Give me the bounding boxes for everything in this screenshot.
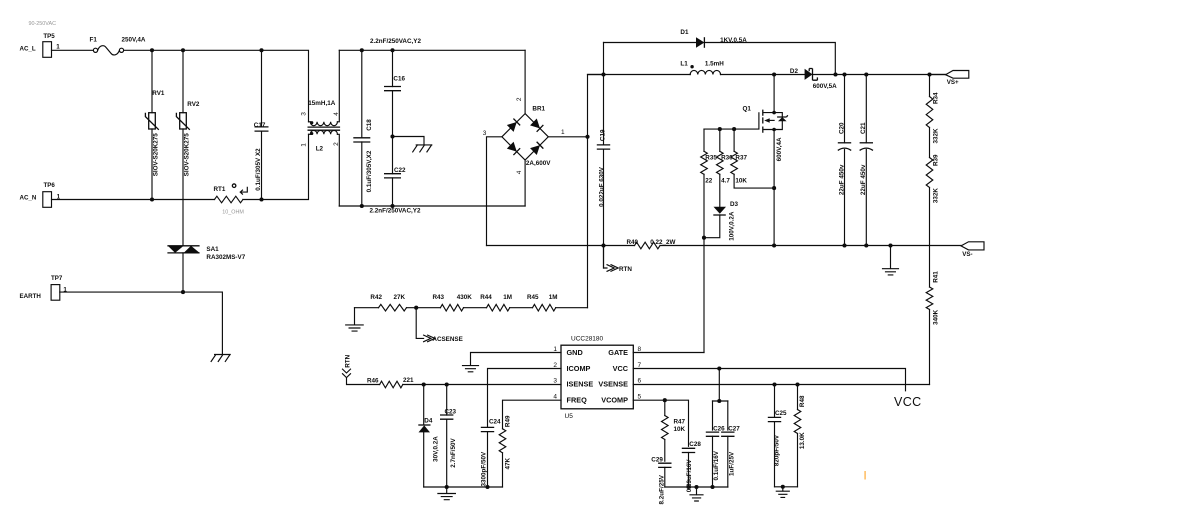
value 2.7nF/50V of C23 <box>450 438 457 468</box>
svg-text:100V,0.2A: 100V,0.2A <box>728 211 735 241</box>
wire AC_L rail to choke <box>124 50 309 122</box>
junction ground stub (VSENSE group) <box>781 485 785 489</box>
svg-text:332K: 332K <box>933 188 940 204</box>
svg-text:C18: C18 <box>366 119 373 131</box>
svg-text:C20: C20 <box>838 122 845 134</box>
net label RTN (ISENSE side) <box>343 354 380 384</box>
diode D4 (zener clamp) <box>418 385 433 488</box>
junction Q1 source on RTN rail <box>772 243 776 247</box>
svg-text:AC_N: AC_N <box>20 195 37 202</box>
label R41 <box>933 271 940 283</box>
svg-text:340K: 340K <box>933 309 940 325</box>
svg-text:VS+: VS+ <box>947 79 959 86</box>
value 430K of R43 <box>457 294 473 301</box>
resistor R41 <box>926 188 933 385</box>
svg-text:D1: D1 <box>680 29 689 36</box>
svg-text:4: 4 <box>333 112 340 116</box>
svg-text:1: 1 <box>301 143 308 147</box>
junction R48 top <box>795 382 799 386</box>
wire BR1 pin3 to RTN rail <box>487 137 502 246</box>
value 27K of R42 <box>394 294 406 301</box>
svg-text:R43: R43 <box>433 294 445 301</box>
stray highlight mark <box>864 471 866 480</box>
value 221 of R46 <box>403 377 414 384</box>
svg-text:R39: R39 <box>933 154 940 166</box>
value 30V,0.2A of D4 <box>433 436 440 462</box>
wire RTN rail <box>487 245 962 247</box>
wire ISENSE group ground rail <box>424 486 503 488</box>
resistor R40 <box>627 239 660 249</box>
junction R47 top <box>663 398 667 402</box>
svg-text:FREQ: FREQ <box>567 395 588 404</box>
capacitor C24 <box>481 419 501 488</box>
capacitor C23 <box>440 385 457 488</box>
svg-text:2.2nF/250VAC,Y2: 2.2nF/250VAC,Y2 <box>370 38 421 45</box>
svg-text:U5: U5 <box>565 413 574 420</box>
value 0.022uF 630V of C19 <box>598 166 605 207</box>
net label ACSENSE <box>416 308 463 343</box>
svg-text:RV1: RV1 <box>152 90 165 97</box>
svg-text:BR1: BR1 <box>532 105 545 112</box>
junction C26 bottom <box>710 485 714 489</box>
varistor RV2 <box>176 50 200 246</box>
svg-text:0.22_2W: 0.22_2W <box>650 239 675 246</box>
junction R34 top <box>927 72 931 76</box>
junction D1 on VS+ rail <box>833 72 837 76</box>
pin name ICOMP <box>567 364 591 373</box>
junction at RV2 top <box>181 48 185 52</box>
ground (RTN rail) <box>883 246 899 275</box>
value 340K of R41 <box>933 309 940 325</box>
svg-text:430K: 430K <box>457 294 473 301</box>
junction C21 bottom <box>864 243 868 247</box>
svg-text:2.7nF/50V: 2.7nF/50V <box>450 438 457 468</box>
resistor R44 <box>480 294 510 311</box>
wire BR1 pin2 to top rail <box>524 50 526 113</box>
value 1M of R44 <box>503 294 512 301</box>
svg-text:L2: L2 <box>316 146 324 153</box>
svg-text:TP7: TP7 <box>51 275 63 282</box>
pin 3 of BR1 <box>483 130 487 137</box>
value SIOV-S20K275 of RV2 <box>184 133 191 177</box>
value RA302MS-V7 of SA1 <box>206 254 245 261</box>
pin number 7 <box>638 362 642 369</box>
value 1M of R45 <box>549 294 558 301</box>
pin 2 of BR1 <box>516 97 523 101</box>
wire post-choke top rail <box>339 49 525 51</box>
junction C23 top <box>445 382 449 386</box>
resistor R34 <box>926 75 933 158</box>
junction C16/C22 midpoint <box>390 134 394 138</box>
junction C22 bottom <box>390 204 394 208</box>
junction R37 to source <box>772 186 776 190</box>
value 1uF/25V of C27 <box>729 451 736 476</box>
value 332K of R34 <box>933 128 940 144</box>
pin number 2 <box>553 362 557 369</box>
net label RTN (at R40) <box>604 246 633 273</box>
value 3300pF/50V of C24 <box>481 451 488 486</box>
label C19 <box>599 129 606 141</box>
junction BR1 pin1 <box>585 135 589 139</box>
capacitor C28 <box>682 441 702 487</box>
pin 1 of L2 <box>301 143 308 147</box>
svg-text:EARTH: EARTH <box>20 293 42 300</box>
pin 1 of TP6 <box>57 194 61 201</box>
pin name ISENSE <box>567 380 594 389</box>
junction C28 bottom <box>686 485 690 489</box>
value 22uF 450v of C21 <box>860 164 867 195</box>
ground (VSENSE group) <box>776 487 789 498</box>
port VS+ <box>930 71 969 87</box>
svg-text:UCC28180: UCC28180 <box>571 336 604 343</box>
svg-text:R44: R44 <box>480 294 492 301</box>
svg-text:R37: R37 <box>735 155 747 162</box>
value 47K of R49 <box>505 457 512 469</box>
svg-text:R40: R40 <box>627 239 639 246</box>
value 0.39uF/16V of C28 <box>686 459 693 493</box>
pin number 8 <box>638 346 642 353</box>
chassis ground (earth) <box>211 355 230 362</box>
svg-text:0.1uF/305V,X2: 0.1uF/305V,X2 <box>366 150 373 192</box>
wire VSENSE pin6 net <box>633 384 929 386</box>
svg-text:C24: C24 <box>489 419 501 426</box>
svg-text:C19: C19 <box>599 129 606 141</box>
svg-text:6: 6 <box>638 378 642 385</box>
pin 3 of L2 <box>301 112 308 116</box>
value 1KV,0.5A of D1 <box>720 37 747 44</box>
value 10K of R37 <box>735 178 747 185</box>
connector TP7 <box>20 275 63 300</box>
capacitor C22 <box>384 137 406 207</box>
wire VCOMP pin5 net <box>633 400 688 446</box>
svg-text:ICOMP: ICOMP <box>567 364 591 373</box>
resistor R43 <box>433 294 464 311</box>
svg-text:1M: 1M <box>549 294 558 301</box>
junction C24 bottom <box>485 485 489 489</box>
svg-text:R42: R42 <box>370 294 382 301</box>
wire VS+ rail <box>588 74 946 76</box>
port VS- <box>961 242 984 258</box>
wire VSENSE group ground rail <box>775 486 798 488</box>
choke L2 <box>308 50 341 206</box>
value 600V,5A of D2 <box>813 83 837 90</box>
junction C25 top <box>772 382 776 386</box>
capacitor C19 <box>597 43 610 269</box>
capacitor C29 <box>651 457 671 487</box>
wire EARTH net <box>60 292 223 354</box>
capacitor C26 <box>706 401 725 487</box>
wire ICOMP pin2 to C24 <box>488 369 562 428</box>
svg-text:250V,4A: 250V,4A <box>122 37 146 44</box>
diode D2 (schottky) <box>790 68 818 80</box>
svg-text:VCOMP: VCOMP <box>601 395 628 404</box>
svg-text:F1: F1 <box>90 37 98 44</box>
svg-text:1uF/25V: 1uF/25V <box>729 451 736 476</box>
svg-text:8.2uF/25V: 8.2uF/25V <box>659 474 666 504</box>
svg-text:D3: D3 <box>730 201 739 208</box>
pin number 6 <box>638 378 642 385</box>
junction RV1 bottom on AC_N <box>150 197 154 201</box>
resistor R48 <box>794 385 801 487</box>
svg-text:C25: C25 <box>775 410 787 417</box>
value 2.2nF/250VAC,Y2 of C22 <box>370 207 421 214</box>
transistor Q1 (MOSFET) <box>704 75 788 246</box>
svg-text:ACSENSE: ACSENSE <box>432 336 462 343</box>
svg-text:332K: 332K <box>933 128 940 144</box>
svg-text:AC_L: AC_L <box>20 45 36 52</box>
svg-text:13.0K: 13.0K <box>799 432 806 449</box>
svg-text:RT1: RT1 <box>214 186 226 193</box>
value 2.2nF/250VAC,Y2 of C16 <box>370 38 421 45</box>
resistor R45 <box>527 294 556 311</box>
value 22 of R35 <box>705 178 713 185</box>
value 0.1uF/305V X2 of C17 <box>255 148 262 191</box>
svg-text:30V,0.2A: 30V,0.2A <box>433 436 440 462</box>
value 332K of R39 <box>933 188 940 204</box>
value 15mH,1A of L2 <box>308 100 335 107</box>
junction gate drive node <box>702 236 706 240</box>
value 0.1uF/305V,X2 of C18 <box>366 150 373 192</box>
pin 1 of TP5 <box>56 44 60 51</box>
label R39 <box>933 154 940 166</box>
capacitor C27 <box>721 401 740 487</box>
value 100V,0.2A of D3 <box>728 211 735 241</box>
ground (pin1 GND) <box>463 366 479 372</box>
pin 1 of TP7 <box>63 286 67 293</box>
label C21 <box>860 122 867 134</box>
wire ISENSE line <box>403 384 561 386</box>
svg-text:RV2: RV2 <box>187 101 200 108</box>
svg-text:600V,4A: 600V,4A <box>776 137 783 161</box>
label R48 <box>799 395 806 407</box>
label C20 <box>838 122 845 134</box>
pin name GATE <box>608 348 628 357</box>
capacitor C16 <box>384 50 405 136</box>
label C18 <box>366 119 373 131</box>
wire VCC pin7 net <box>633 369 905 391</box>
junction VCC decoupling tap <box>717 366 721 370</box>
junction Q1 drain on VS+ rail <box>772 72 776 76</box>
svg-text:820pF/50V: 820pF/50V <box>774 434 781 466</box>
svg-text:R49: R49 <box>505 415 512 427</box>
wire divider chain <box>355 307 588 309</box>
pin name VCOMP <box>601 395 628 404</box>
junction C18 top <box>360 48 364 52</box>
varistor RV1 <box>145 50 165 199</box>
svg-text:R34: R34 <box>933 92 940 104</box>
svg-text:2: 2 <box>333 142 340 146</box>
value 10_OHM of RT1 <box>222 209 244 215</box>
svg-text:RA302MS-V7: RA302MS-V7 <box>206 254 245 261</box>
svg-text:C17: C17 <box>254 122 266 129</box>
capacitor C18 <box>353 50 370 206</box>
svg-text:47K: 47K <box>505 457 512 469</box>
pin name VCC <box>613 364 629 373</box>
svg-text:R45: R45 <box>527 294 539 301</box>
svg-text:3: 3 <box>301 112 308 116</box>
junction C19 bottom on RTN <box>601 243 605 247</box>
svg-text:L1: L1 <box>680 61 688 68</box>
svg-text:10K: 10K <box>674 426 686 433</box>
svg-text:10K: 10K <box>735 178 747 185</box>
svg-text:1KV,0.5A: 1KV,0.5A <box>720 37 747 44</box>
thermistor RT1 <box>214 184 248 203</box>
bridge rectifier BR1 <box>502 105 548 160</box>
pin 1 of BR1 <box>561 129 565 136</box>
junction R37 gate line <box>732 127 736 131</box>
svg-text:4: 4 <box>516 170 523 174</box>
value 820pF/50V of C25 <box>774 434 781 466</box>
svg-text:SIOV-S20K275: SIOV-S20K275 <box>184 133 191 177</box>
svg-text:7: 7 <box>638 362 642 369</box>
svg-text:VS-: VS- <box>962 251 972 258</box>
capacitor C25 <box>768 385 787 487</box>
value 10K of R47 <box>674 426 686 433</box>
svg-text:VSENSE: VSENSE <box>598 380 628 389</box>
wire to chassis ground <box>393 137 425 145</box>
svg-text:R47: R47 <box>674 419 686 426</box>
svg-text:VCC: VCC <box>894 395 922 409</box>
capacitor C17 <box>254 50 269 199</box>
svg-text:C28: C28 <box>689 441 701 448</box>
wire gate drive to GATE pin <box>703 238 705 353</box>
value 22uF 450v of C20 <box>838 164 845 195</box>
connector TP6 <box>20 182 56 208</box>
svg-text:RTN: RTN <box>345 354 352 367</box>
resistor R47 <box>662 400 686 461</box>
svg-text:3: 3 <box>553 378 557 385</box>
svg-text:600V,5A: 600V,5A <box>813 83 837 90</box>
wire post-choke bottom rail <box>339 205 525 207</box>
inductor L1 <box>680 61 720 75</box>
resistor R35 <box>701 129 718 238</box>
svg-text:0.1uF/16V: 0.1uF/16V <box>713 450 720 480</box>
svg-text:2A,600V: 2A,600V <box>526 160 551 167</box>
junction SA1 on EARTH <box>181 290 185 294</box>
junction C19 top on VS+ rail <box>601 72 605 76</box>
junction at C17 top <box>259 48 263 52</box>
junction ACSENSE tap <box>414 306 418 310</box>
diode D1 <box>604 29 836 74</box>
svg-text:SA1: SA1 <box>206 246 219 253</box>
pin 4 of BR1 <box>516 170 523 174</box>
capacitor C21 <box>860 75 873 246</box>
svg-text:4: 4 <box>553 393 557 400</box>
value SIOV-S20K275 of RV1 <box>153 133 160 177</box>
value 2A,600V of BR1 <box>526 160 551 167</box>
svg-text:R35: R35 <box>705 155 717 162</box>
svg-text:2: 2 <box>516 97 523 101</box>
svg-text:ISENSE: ISENSE <box>567 380 594 389</box>
wire AC_N rail <box>52 134 309 199</box>
label R49 <box>505 415 512 427</box>
value 4.7 of R36 <box>721 178 730 185</box>
pin number 4 <box>553 393 557 400</box>
junction C17 bottom on AC_N <box>259 197 263 201</box>
svg-text:0.1uF/305V X2: 0.1uF/305V X2 <box>255 148 262 191</box>
pin name FREQ <box>567 395 588 404</box>
junction C20 bottom <box>842 243 846 247</box>
wire VCC to C26/C27 <box>713 369 728 402</box>
svg-text:2: 2 <box>553 362 557 369</box>
connector TP5 <box>20 33 56 57</box>
svg-text:5: 5 <box>638 393 642 400</box>
svg-text:Q1: Q1 <box>743 106 752 113</box>
value 600V,4A of Q1 <box>776 137 783 161</box>
capacitor C20 <box>838 75 851 246</box>
svg-text:RTN: RTN <box>619 266 632 273</box>
suppressor SA1 <box>167 246 219 292</box>
wire BR1 pin4 to bottom rail <box>524 160 526 206</box>
wire FREQ pin4 to R49 <box>503 400 562 429</box>
wire BR1 pin1 node <box>548 75 603 308</box>
junction C21 top <box>864 72 868 76</box>
svg-text:90-250VAC: 90-250VAC <box>29 21 57 27</box>
value 0.22_2W of R40 <box>650 239 675 246</box>
resistor R49 <box>499 429 506 487</box>
svg-text:C22: C22 <box>394 167 406 174</box>
svg-text:R46: R46 <box>367 378 379 385</box>
resistor R46 <box>367 378 403 388</box>
value 0.1uF/16V of C26 <box>713 450 720 480</box>
svg-text:1.5mH: 1.5mH <box>705 61 724 68</box>
svg-text:TP6: TP6 <box>44 182 56 189</box>
svg-text:3: 3 <box>483 130 487 137</box>
svg-text:1M: 1M <box>503 294 512 301</box>
junction C16 top <box>390 48 394 52</box>
junction C23 bottom <box>445 485 449 489</box>
svg-text:C23: C23 <box>445 409 457 416</box>
resistor R42 <box>370 294 406 311</box>
svg-text:22uF 450v: 22uF 450v <box>838 164 845 195</box>
pin 4 of L2 <box>333 112 340 116</box>
junction C26/C27 bracket <box>717 399 721 403</box>
pin number 3 <box>553 378 557 385</box>
pin name GND <box>567 348 583 357</box>
value 13.0K of R48 <box>799 432 806 449</box>
svg-text:1: 1 <box>561 129 565 136</box>
resistor R39 <box>926 158 933 188</box>
junction ground stub <box>694 485 698 489</box>
svg-text:10_OHM: 10_OHM <box>222 209 244 215</box>
diode D3 (zener) <box>704 201 739 238</box>
junction ground stub on RTN <box>888 243 892 247</box>
svg-text:C16: C16 <box>393 76 405 83</box>
note 90-250VAC <box>29 21 57 27</box>
svg-text:2.2nF/250VAC,Y2: 2.2nF/250VAC,Y2 <box>370 207 421 214</box>
ground (R42) <box>346 308 364 331</box>
resistor R37 <box>731 129 774 188</box>
svg-text:C29: C29 <box>651 457 663 464</box>
ground (VCOMP group) <box>690 487 703 501</box>
svg-text:3300pF/50V: 3300pF/50V <box>481 451 488 486</box>
chassis ground (Y caps) <box>413 145 432 152</box>
pin number 1 <box>553 346 557 353</box>
pin number 5 <box>638 393 642 400</box>
svg-text:22uF 450v: 22uF 450v <box>860 164 867 195</box>
label R34 <box>933 92 940 104</box>
wire GND pin1 <box>471 353 562 366</box>
svg-text:D4: D4 <box>424 417 433 424</box>
wire GATE pin8 <box>633 352 704 354</box>
value 8.2uF/25V of C29 <box>659 474 666 504</box>
svg-text:D2: D2 <box>790 68 799 75</box>
svg-text:R48: R48 <box>799 395 806 407</box>
net label VCC <box>894 395 922 409</box>
pin name VSENSE <box>598 380 628 389</box>
junction D4 top <box>422 382 426 386</box>
svg-text:R41: R41 <box>933 271 940 283</box>
